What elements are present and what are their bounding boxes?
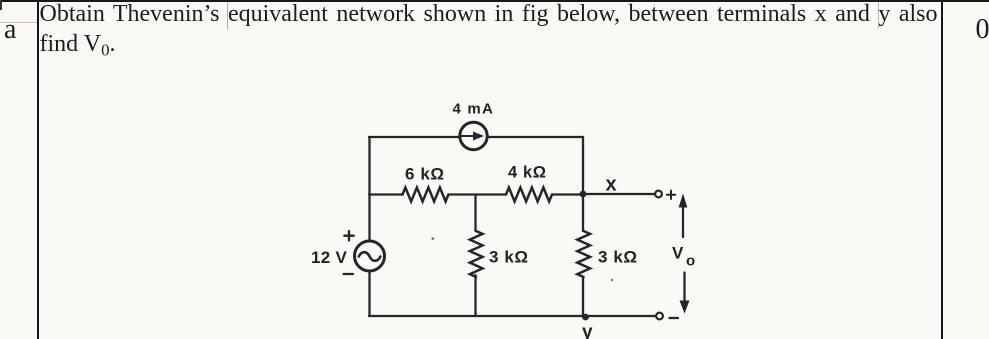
wire: middle branch [474, 195, 476, 317]
wire: left branch [368, 137, 370, 316]
V0 arrow down [680, 273, 690, 314]
V0 arrow up [679, 194, 688, 238]
wire: right branch (node x column) [582, 137, 584, 316]
label 12 V [311, 248, 348, 267]
right column divider line [941, 0, 943, 339]
question text line 1 [40, 0, 938, 29]
svg-text:o: o [686, 253, 695, 270]
label 6 kOhm [405, 165, 445, 184]
svg-text:12 V: 12 V [311, 248, 348, 267]
resistor R2 4 kOhm [506, 188, 552, 202]
svg-text:V: V [672, 244, 684, 263]
label 4 kOhm [508, 164, 547, 182]
label y terminal [582, 322, 593, 339]
edge mark top-left [0, 0, 2, 10]
label a (row letter) [4, 20, 16, 39]
label V0 [672, 244, 695, 270]
wire: node x lead [583, 193, 655, 195]
scan speck 2 [611, 279, 613, 281]
polarity - of V1 [344, 273, 354, 275]
resistor R1 6 kOhm [403, 188, 449, 202]
label x terminal [606, 174, 617, 196]
label 3 kOhm (middle) [489, 248, 529, 267]
svg-text:3 kΩ: 3 kΩ [489, 248, 529, 267]
polarity - at terminal y [670, 317, 679, 319]
resistor R4 3 kOhm (right) [577, 231, 590, 277]
question text line 2 [40, 29, 116, 59]
svg-text:y: y [582, 322, 593, 339]
wire: bottom rail [369, 315, 655, 317]
faint row line left margin [0, 22, 37, 23]
svg-text:x: x [606, 174, 617, 196]
polarity + at terminal x [667, 191, 675, 200]
wire: top rail [369, 136, 583, 138]
junction node dot (y rail) [582, 314, 589, 321]
svg-text:4 kΩ: 4 kΩ [508, 164, 547, 182]
terminal x open circle [655, 191, 662, 198]
table top border [0, 0, 989, 2]
current source I1 4 mA [460, 122, 487, 149]
svg-text:3 kΩ: 3 kΩ [598, 248, 638, 267]
wire: middle rail segments [369, 193, 584, 195]
voltage source V1 12 V [355, 241, 385, 271]
svg-text:4 mA: 4 mA [453, 101, 494, 118]
resistor R3 3 kOhm (middle) [470, 231, 483, 277]
junction node dot (x rail) [580, 191, 587, 198]
svg-text:6 kΩ: 6 kΩ [405, 165, 445, 184]
label 3 kOhm (right) [598, 248, 638, 267]
polarity + of V1 [344, 231, 353, 241]
left column divider line [37, 0, 39, 339]
label 4 mA [453, 101, 494, 118]
faint scan artifact line 2 [878, 2, 879, 28]
scan speck 1 [432, 237, 435, 240]
terminal y open circle [656, 313, 663, 320]
faint scan artifact line 1 [227, 2, 228, 30]
marks column 0 [976, 20, 989, 39]
